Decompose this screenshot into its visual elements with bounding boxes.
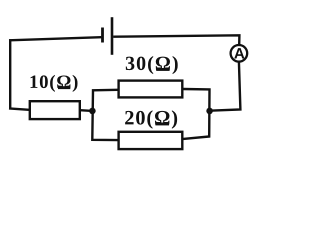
wire ammeter to node C — [210, 61, 241, 110]
node C junction dot — [206, 108, 213, 115]
wire top-right (battery positive to ammeter) — [113, 35, 239, 44]
wire right parallel branch connector — [183, 89, 209, 139]
battery cell — [101, 17, 113, 55]
wire left parallel branch connector — [92, 90, 117, 140]
node B junction dot — [89, 108, 96, 115]
wire resistor R1 to node B — [80, 109, 93, 112]
wire bottom-left (left rail to resistor R1) — [9, 108, 29, 109]
value label R1 10 ohm — [31, 75, 78, 92]
resistor R3 box (20 ohm) — [119, 132, 183, 149]
wire top-left (left rail to battery negative) — [9, 37, 101, 40]
wire left rail vertical — [9, 39, 11, 108]
resistor R1 box — [30, 101, 80, 119]
resistor R2 box (30 ohm) — [119, 81, 183, 98]
value label R3 20 ohm — [125, 110, 177, 128]
ammeter U1 — [231, 45, 248, 62]
value label R2 30 ohm — [126, 56, 178, 74]
